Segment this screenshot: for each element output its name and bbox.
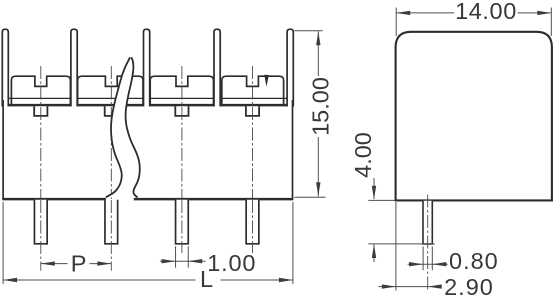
svg-text:14.00: 14.00 [455,0,517,24]
svg-text:1.00: 1.00 [207,250,256,276]
svg-text:0.80: 0.80 [449,248,499,274]
svg-text:P: P [71,251,87,277]
svg-text:4.00: 4.00 [350,132,376,178]
svg-text:15.00: 15.00 [307,77,333,136]
svg-text:2.90: 2.90 [444,274,494,297]
